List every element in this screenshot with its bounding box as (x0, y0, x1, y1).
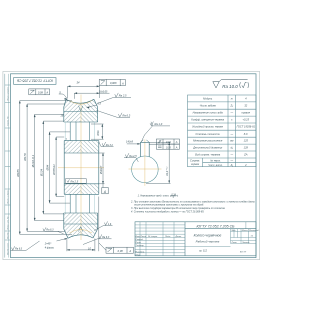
keyway tolerance frames (149, 139, 179, 149)
svg-text:Ø142-0,1: Ø142-0,1 (31, 154, 35, 168)
name cell (230, 229, 232, 244)
circle centerlines (129, 168, 162, 170)
Ra 6.3 mark bottom-left (11, 241, 40, 250)
svg-text:правое: правое (242, 112, 251, 115)
svg-text:Ra 3,2: Ra 3,2 (106, 144, 114, 147)
svg-text:Ra 2,5: Ra 2,5 (119, 94, 127, 98)
dimension Ø185 (19, 101, 21, 235)
general roughness Ra 10.0 top-right (213, 80, 249, 88)
Ra 6.3 leader right of rim (97, 110, 131, 117)
svg-text:IT14: IT14 (172, 193, 177, 196)
svg-text:Ø30Н7: Ø30Н7 (99, 165, 103, 175)
svg-text:0,008: 0,008 (110, 81, 117, 85)
dimension Ø94 (49, 132, 51, 203)
sheet outer edge (3, 72, 260, 260)
keyway slot (141, 142, 150, 156)
svg-text:ЮГТУ 72.052.7.205 СБ: ЮГТУ 72.052.7.205 СБ (196, 224, 235, 228)
svg-text:Масса: Масса (242, 230, 249, 232)
bore top line (64, 152, 99, 154)
crown hatch bottom crosshatched (64, 213, 98, 238)
svg-text:Исходный произв. червяк: Исходный произв. червяк (192, 125, 223, 129)
Ra 2.5 leader to circle (124, 153, 138, 162)
svg-text:Справ. №: Справ. № (7, 116, 10, 126)
dimension 16±0.05 (74, 93, 109, 99)
hole diameter dim Ø30 right (91, 124, 104, 139)
svg-text:гр. 312: гр. 312 (199, 250, 207, 253)
web walls upper (70, 122, 89, 141)
svg-text:0,08: 0,08 (38, 90, 44, 94)
svg-text:Лист: Лист (231, 242, 237, 244)
svg-text:№ докум.: № докум. (148, 235, 158, 238)
svg-text:4 фаски: 4 фаски (45, 246, 55, 249)
left diameter dimensions (20, 101, 72, 235)
svg-text:Инв.№: Инв.№ (7, 232, 10, 239)
pitch arc top (orange) (70, 100, 93, 104)
svg-text:—: — (230, 112, 234, 115)
keyway depth dim 33.3 (146, 142, 171, 183)
svg-text:Инв.№ подл.: Инв.№ подл. (7, 242, 10, 255)
svg-text:Ø124: Ø124 (39, 169, 43, 178)
svg-text:8-С: 8-С (244, 132, 248, 136)
svg-text:Перв. примен.: Перв. примен. (8, 86, 10, 100)
svg-text:А: А (175, 146, 178, 149)
svg-text:1:1: 1:1 (251, 236, 254, 238)
hub faces (64, 141, 99, 195)
svg-text:Утв.: Утв. (135, 254, 140, 256)
svg-text:Ra 10.0: Ra 10.0 (222, 84, 238, 89)
svg-text:Ø94: Ø94 (46, 164, 50, 171)
svg-text:33,3⁺⁰·²: 33,3⁺⁰·² (165, 167, 169, 176)
centerline axis horizontal (58, 167, 104, 169)
svg-text:А: А (128, 249, 131, 253)
hub bottom line (64, 193, 99, 195)
svg-text:Масштаб: Масштаб (249, 230, 259, 232)
circular view with keyway (124, 122, 179, 186)
svg-text:d₂: d₂ (231, 146, 233, 150)
svg-text:Степень точности: Степень точности (195, 132, 220, 136)
rim bottom chamfers (64, 229, 98, 238)
parameter table (188, 95, 257, 167)
throat arc bottom (68, 235, 93, 238)
svg-text:16±0,05: 16±0,05 (99, 91, 108, 93)
svg-text:Н.контр.: Н.контр. (135, 251, 145, 253)
svg-text:А: А (175, 141, 178, 144)
svg-text:А: А (45, 90, 48, 94)
title block (135, 222, 256, 256)
svg-text:Взам. инв. №: Взам. инв. № (7, 216, 10, 230)
throat arc top (66, 99, 94, 103)
svg-text:—: — (230, 133, 234, 136)
crown inner line (64, 110, 98, 112)
svg-text:Z₁: Z₁ (230, 163, 234, 167)
svg-text:ЮГТУ 72.052.7.205 СБ: ЮГТУ 72.052.7.205 СБ (16, 79, 53, 83)
svg-text:Межосевое расстояние: Межосевое расстояние (193, 139, 223, 143)
svg-text:Пров.: Пров. (135, 242, 141, 244)
svg-text:Вид сопряж. червяка: Вид сопряж. червяка (195, 153, 221, 157)
Ra 2.5 leader top (97, 93, 131, 104)
technical notes (130, 193, 255, 214)
tolerance frame bottom (99, 243, 133, 253)
pitch arc bottom (orange) (70, 229, 93, 233)
hub hatch lower (64, 184, 99, 195)
svg-text:4. Степень чистоты необработ.: 4. Степень чистоты необработ. колеса — п… (131, 211, 205, 214)
Ra 1.0 mark above keyway (141, 122, 170, 142)
svg-text:червяк: червяк (191, 163, 200, 166)
svg-text:Сопряж.: Сопряж. (190, 158, 200, 162)
svg-text:Модуль: Модуль (203, 97, 213, 101)
svg-text:Т.контр.: Т.контр. (135, 245, 144, 247)
svg-text:Изм: Изм (135, 236, 140, 238)
rim top chamfers (64, 99, 98, 107)
svg-text:Ra 2,5: Ra 2,5 (129, 155, 137, 158)
svg-text:Ra 1,0: Ra 1,0 (155, 122, 163, 126)
svg-text:А: А (121, 81, 124, 85)
Ra 2.5 label in bore (66, 179, 87, 184)
svg-text:Подп.: Подп. (165, 235, 171, 238)
tolerance frame top-left (29, 89, 50, 95)
svg-text:125: 125 (244, 139, 249, 143)
svg-text:Ra 6,3: Ra 6,3 (15, 248, 23, 251)
svg-text:Колесо червячное: Колесо червячное (194, 234, 222, 238)
datum A box (102, 188, 108, 194)
svg-text:2×45°: 2×45° (44, 242, 52, 245)
dimension Ø78h11 (55, 137, 57, 197)
section view: worm wheel (58, 95, 104, 241)
rotated diameter texts (16, 153, 56, 178)
centerline mid-plane vertical (80, 95, 82, 241)
svg-text:—: — (230, 160, 234, 163)
crown inner line bottom (64, 223, 98, 225)
rim outer faces bottom (64, 213, 98, 229)
Ra 3.2 leader right of hub (99, 142, 114, 147)
svg-text:ЮГТУ: ЮГТУ (240, 252, 247, 254)
tooth gap top (79, 106, 83, 111)
svg-text:Дата: Дата (175, 236, 183, 238)
svg-text:Ø78h11: Ø78h11 (52, 164, 56, 176)
dimension 10 bottom (67, 197, 99, 252)
bore circle (132, 156, 159, 183)
svg-text:ZA: ZA (243, 153, 248, 157)
svg-text:ГОСТ 19036-81: ГОСТ 19036-81 (237, 125, 256, 129)
svg-text:после уточнения размеров загот: после уточнения размеров заготовки и при… (134, 203, 204, 206)
left margin rotated labels (7, 86, 10, 255)
drawing frame (11, 74, 257, 258)
svg-text:Ra 6,3: Ra 6,3 (46, 229, 54, 232)
svg-text:Числ. витк.: Числ. витк. (208, 163, 223, 167)
svg-text:14Js9: 14Js9 (126, 140, 133, 144)
svg-text:0,02: 0,02 (166, 141, 171, 144)
designation cell (185, 228, 256, 230)
svg-text:Число зубьев: Число зубьев (200, 104, 217, 108)
rim bottom line (64, 121, 98, 123)
dimension Ø170 (26, 104, 28, 231)
svg-text:Лист: Лист (139, 236, 146, 238)
Ra 1.6 mark bottom right (94, 221, 113, 230)
dimension 34 top (68, 86, 100, 98)
svg-text:128: 128 (244, 146, 249, 150)
svg-text:Подп. и дата: Подп. и дата (7, 190, 10, 204)
svg-text:0,08: 0,08 (118, 249, 124, 253)
Ra 6.3 mark mid-left bottom (43, 227, 64, 233)
top-left designation box (14, 78, 56, 85)
svg-text:Z₂: Z₂ (230, 104, 234, 108)
svg-text:0,05: 0,05 (166, 146, 171, 149)
bore dim Ø30H7 with datum A (99, 153, 105, 188)
svg-text:Ra 6,3: Ra 6,3 (123, 114, 131, 118)
hub hatch upper (64, 141, 99, 153)
dimension Ø142 (34, 114, 36, 220)
svg-text:Рабочий чертеж: Рабочий чертеж (196, 240, 221, 244)
dimension arrows left stack (19, 101, 57, 235)
svg-text:Ø170: Ø170 (23, 153, 27, 162)
dimension Ø124 (42, 121, 44, 214)
svg-text:Делительный диаметр: Делительный диаметр (192, 146, 223, 150)
svg-text:+0,25: +0,25 (243, 118, 250, 122)
svg-text:Направление линии зуба: Направление линии зуба (193, 111, 224, 115)
svg-text:А: А (103, 190, 106, 194)
svg-text:№ черт.: № черт. (210, 160, 221, 163)
hub top line (64, 140, 99, 142)
tolerance frame top-right (99, 79, 125, 85)
svg-text:Лит.: Лит. (230, 230, 236, 232)
rim outer faces (64, 107, 98, 122)
title block left grid (135, 222, 185, 256)
left margin column (5, 74, 11, 258)
crown hatch top (64, 99, 98, 122)
bore bottom line (64, 183, 99, 185)
svg-text:Ra 2,5: Ra 2,5 (71, 179, 79, 183)
svg-text:Коэфф. смещения червяка: Коэфф. смещения червяка (191, 118, 224, 122)
svg-text:Листов: Листов (241, 242, 249, 244)
web walls lower (70, 194, 89, 213)
svg-text:Ra 6,3: Ra 6,3 (102, 236, 110, 239)
rim bottom top line (64, 212, 98, 214)
lit-massa-masshtab grid (231, 229, 257, 244)
svg-text:Ø30: Ø30 (96, 130, 100, 136)
tooth gap bottom (79, 227, 83, 232)
svg-text:—: — (230, 154, 234, 157)
svg-text:Разраб.: Разраб. (135, 239, 143, 241)
keyway width dim 14Js9 (127, 143, 140, 145)
svg-text:Ø185: Ø185 (16, 169, 20, 178)
